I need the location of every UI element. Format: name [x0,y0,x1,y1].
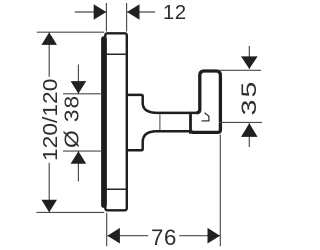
dim 12 leader right [127,11,155,13]
dim 120/120 extension line bottom [36,211,104,213]
plate inner edge line top [107,53,127,55]
flare tangent edge line [159,114,161,130]
dim 76 extension line right [219,135,221,247]
svg-text:35: 35 [237,80,261,116]
dim O38 arrow down [71,81,87,94]
svg-text:Ø 38: Ø 38 [61,95,83,148]
dim 120/120 line [48,32,50,76]
wall plate body [105,33,127,210]
dim 120/120 arrow down [41,200,57,213]
dim 35 arrow down [241,56,258,69]
dim O38 extension line bottom [63,150,101,152]
svg-text:76: 76 [151,225,177,250]
dim O38 arrow up [71,151,87,164]
dim 76 line right [179,235,220,237]
dim 12 leader left [75,11,106,13]
dim 120/120 arrow up [41,32,57,45]
dim 12 extension line left [105,3,107,32]
wall plate back flange [101,36,107,208]
dim 76 arrow right [208,228,221,244]
dim 35 extension line top [219,69,261,71]
svg-text:120/120: 120/120 [39,79,61,161]
plate inner edge line bottom [107,188,127,190]
dim 12 arrow right [127,4,140,20]
dim 35 extension line bottom [219,121,262,123]
hook body [192,71,220,132]
svg-text:12: 12 [163,1,187,24]
dim O38 line top [77,65,79,94]
dim 35 line top [248,46,250,69]
hook seat detail mark [202,113,209,121]
dim 12 arrow left [94,4,107,20]
stem flare top profile [128,95,199,113]
dim 76 line left [107,235,148,237]
dim O38 extension line top [63,93,101,95]
dim 12 extension line right [126,3,128,32]
stem/hook joint line [189,112,192,134]
dim O38 line bottom [77,151,79,181]
dim 120/120 extension line top [37,31,105,33]
dim 76 arrow left [107,228,120,244]
stem flare bottom profile [128,131,194,150]
dim 35 line bottom [248,123,250,147]
dim 76 extension line left [106,213,108,246]
dim 35 arrow up [241,123,258,137]
